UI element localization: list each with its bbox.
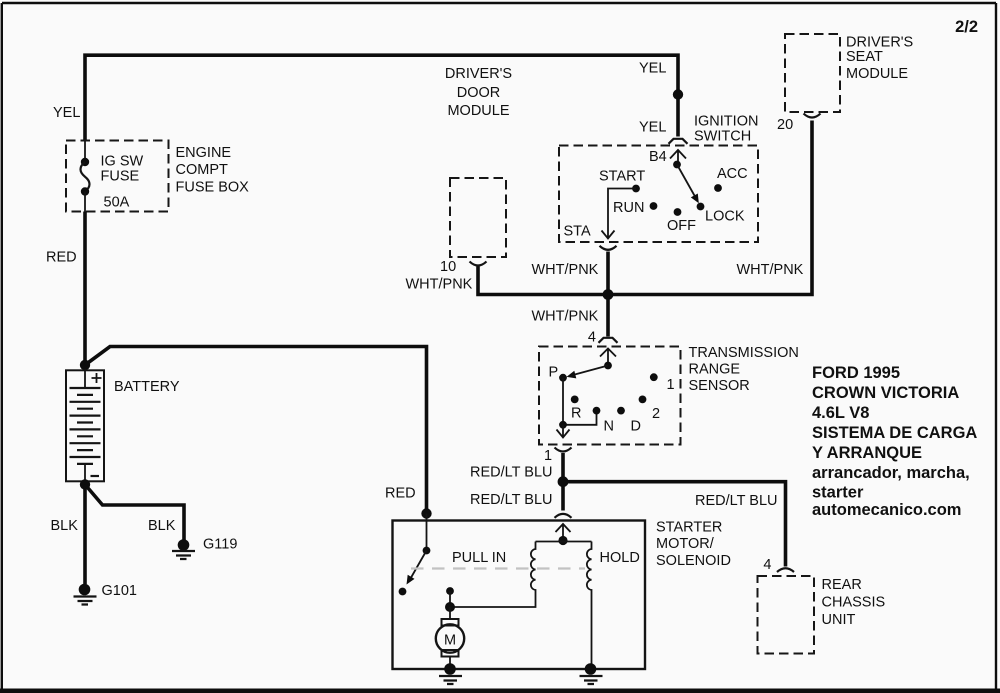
svg-text:UNIT: UNIT <box>822 612 856 628</box>
svg-text:1: 1 <box>544 448 552 464</box>
svg-text:IGNITION: IGNITION <box>694 114 758 130</box>
wire RED battery to starter solenoid <box>85 347 427 514</box>
node 2 contact <box>639 396 647 404</box>
sensor output down arrow <box>557 425 570 438</box>
connector cup pin 20 <box>804 114 821 118</box>
node LOCK contact <box>697 203 705 211</box>
frame right border <box>995 3 997 689</box>
wire RED/LT BLU branch to rear chassis unit <box>563 482 786 567</box>
svg-text:SOLENOID: SOLENOID <box>656 553 731 569</box>
svg-text:Y ARRANQUE: Y ARRANQUE <box>812 444 922 462</box>
wire RED/LT BLU sensor to starter <box>561 453 565 511</box>
node switch lower contact <box>399 588 407 596</box>
svg-text:YEL: YEL <box>639 120 666 136</box>
svg-text:FORD 1995: FORD 1995 <box>812 364 900 382</box>
svg-text:50A: 50A <box>104 195 130 211</box>
node D contact <box>617 407 625 415</box>
driver's door module box (dashed) <box>450 178 506 257</box>
svg-text:IG SW: IG SW <box>101 154 144 170</box>
frame bottom border <box>0 689 1000 693</box>
svg-text:B4: B4 <box>649 149 667 165</box>
svg-text:YEL: YEL <box>53 105 80 121</box>
frame left border <box>1 3 3 689</box>
hold coil <box>587 542 592 668</box>
svg-text:BATTERY: BATTERY <box>114 379 180 395</box>
terminal B4 arrow <box>670 150 686 165</box>
wire BLK battery to G119 <box>85 485 184 541</box>
wire BLK battery to G101 <box>83 485 87 585</box>
wire contact to motor node <box>449 591 451 607</box>
svg-text:10: 10 <box>440 259 456 275</box>
battery B1 <box>66 370 104 481</box>
svg-text:G101: G101 <box>102 583 137 599</box>
svg-text:COMPT: COMPT <box>176 162 229 178</box>
node pull-in lower contact <box>446 587 454 595</box>
svg-text:arrancador, marcha,: arrancador, marcha, <box>812 464 970 482</box>
svg-text:BLK: BLK <box>148 518 176 534</box>
node ACC contact <box>714 184 722 192</box>
node solenoid input junction <box>421 508 431 518</box>
svg-text:YEL: YEL <box>639 61 666 77</box>
svg-text:G119: G119 <box>203 537 237 553</box>
svg-text:R: R <box>571 406 581 422</box>
svg-text:RED/LT BLU: RED/LT BLU <box>470 492 552 508</box>
node RUN contact <box>650 202 658 210</box>
node output junction <box>559 421 567 429</box>
wire WHT/PNK door module to seat module <box>478 121 812 295</box>
svg-text:WHT/PNK: WHT/PNK <box>532 309 599 325</box>
FORD 1995 info text <box>812 364 977 519</box>
connector hat at ignition input <box>669 139 688 144</box>
ground G119 <box>172 539 195 559</box>
svg-text:D: D <box>631 419 641 435</box>
svg-text:P: P <box>549 365 559 381</box>
svg-text:STA: STA <box>564 224 591 240</box>
frame top border <box>2 2 996 4</box>
starter motor/solenoid box <box>393 521 646 670</box>
driver's seat module box (dashed) <box>785 34 840 112</box>
node OFF contact <box>674 208 682 216</box>
node 1 contact <box>650 373 658 381</box>
svg-text:CROWN VICTORIA: CROWN VICTORIA <box>812 384 959 402</box>
svg-text:4.6L V8: 4.6L V8 <box>812 404 869 422</box>
svg-text:starter: starter <box>812 484 864 502</box>
svg-text:DRIVER'S: DRIVER'S <box>445 66 512 82</box>
svg-text:MODULE: MODULE <box>447 103 509 119</box>
svg-text:4: 4 <box>763 557 771 573</box>
node N contact <box>593 407 601 415</box>
svg-text:4: 4 <box>588 330 596 346</box>
connector hat transmission input <box>599 338 618 343</box>
svg-text:WHT/PNK: WHT/PNK <box>406 277 473 293</box>
svg-text:CHASSIS: CHASSIS <box>822 595 886 611</box>
node WHT/PNK junction <box>603 289 614 300</box>
node R contact <box>571 396 579 404</box>
svg-text:M: M <box>444 633 456 649</box>
wire START to STA output with down arrow <box>602 189 637 239</box>
connector cup pin 10 <box>470 262 487 266</box>
ground motor <box>439 663 462 684</box>
svg-text:FUSE BOX: FUSE BOX <box>176 180 250 196</box>
svg-text:WHT/PNK: WHT/PNK <box>532 262 599 278</box>
svg-text:RED/LT BLU: RED/LT BLU <box>470 465 552 481</box>
motor M <box>436 607 464 667</box>
connector cap starter input <box>555 514 572 518</box>
svg-text:REAR: REAR <box>822 577 862 593</box>
ignition switch box (dashed) <box>559 146 758 243</box>
pull-in coil <box>450 542 536 608</box>
solenoid switch feed <box>426 514 428 551</box>
svg-text:RED: RED <box>385 486 416 502</box>
transmission range sensor box (dashed) <box>539 347 681 445</box>
connector cup sensor pin 1 <box>555 448 572 452</box>
svg-text:SISTEMA DE CARGA: SISTEMA DE CARGA <box>812 424 977 442</box>
svg-text:PULL IN: PULL IN <box>452 550 506 566</box>
node RED/LT BLU junction <box>558 476 569 487</box>
node motor feed <box>445 602 455 612</box>
wire WHT/PNK STA down to junction <box>606 252 610 295</box>
terminal arrow transmission input <box>600 349 616 366</box>
svg-text:RED/LT BLU: RED/LT BLU <box>695 493 777 509</box>
solenoid switch blade <box>411 551 427 579</box>
svg-text:RANGE: RANGE <box>689 362 741 378</box>
svg-text:WHT/PNK: WHT/PNK <box>737 262 804 278</box>
svg-text:20: 20 <box>777 117 793 133</box>
fuse IG SW 50A <box>81 141 90 212</box>
svg-text:MOTOR/: MOTOR/ <box>656 536 715 552</box>
node sensor common <box>604 362 612 370</box>
ground hold coil <box>580 663 603 684</box>
svg-text:HOLD: HOLD <box>600 550 640 566</box>
divider dashed gray <box>411 567 585 569</box>
wire RED fuse to battery <box>83 212 87 366</box>
terminal arrow starter input <box>556 524 571 541</box>
svg-text:FUSE: FUSE <box>101 169 140 185</box>
node START contact <box>632 185 640 193</box>
svg-text:SWITCH: SWITCH <box>694 129 751 145</box>
svg-text:RED: RED <box>46 250 77 266</box>
svg-text:ACC: ACC <box>717 166 748 182</box>
svg-text:DOOR: DOOR <box>457 85 501 101</box>
node B4 contact <box>673 161 681 169</box>
node P contact <box>559 374 567 382</box>
rear chassis unit box (dashed) <box>758 576 815 654</box>
wire P to output <box>563 378 597 425</box>
switch blade B4 to LOCK <box>677 165 695 197</box>
ground G101 <box>74 584 97 605</box>
connector cup STA output <box>600 246 617 250</box>
svg-text:LOCK: LOCK <box>705 209 745 225</box>
rear chassis unit connector cap <box>777 568 794 572</box>
svg-text:SEAT: SEAT <box>846 49 883 65</box>
svg-text:TRANSMISSION: TRANSMISSION <box>689 345 799 361</box>
svg-text:N: N <box>604 419 614 435</box>
svg-text:2: 2 <box>652 406 660 422</box>
wire YEL main loop: fuse box up, across top, down to ignition switch <box>85 55 678 141</box>
node switch pivot <box>423 547 431 555</box>
engine compt fuse box (dashed) <box>66 141 169 212</box>
coil bus <box>536 541 592 543</box>
svg-text:MODULE: MODULE <box>846 66 908 82</box>
svg-text:automecanico.com: automecanico.com <box>812 501 961 519</box>
svg-text:START: START <box>599 169 645 185</box>
switch blade to P <box>572 366 608 376</box>
node coil junction <box>558 536 567 545</box>
svg-text:SENSOR: SENSOR <box>689 378 750 394</box>
svg-text:1: 1 <box>667 377 675 393</box>
node battery positive junction <box>80 360 90 370</box>
svg-text:BLK: BLK <box>51 518 79 534</box>
svg-text:2/2: 2/2 <box>955 18 978 36</box>
svg-text:RUN: RUN <box>613 200 644 216</box>
node battery negative junction <box>80 479 90 489</box>
svg-text:ENGINE: ENGINE <box>176 145 232 161</box>
svg-text:STARTER: STARTER <box>656 520 722 536</box>
svg-text:OFF: OFF <box>667 218 696 234</box>
node splice on YEL vertical <box>673 89 683 99</box>
wire WHT/PNK junction down to transmission range sensor <box>606 295 610 337</box>
